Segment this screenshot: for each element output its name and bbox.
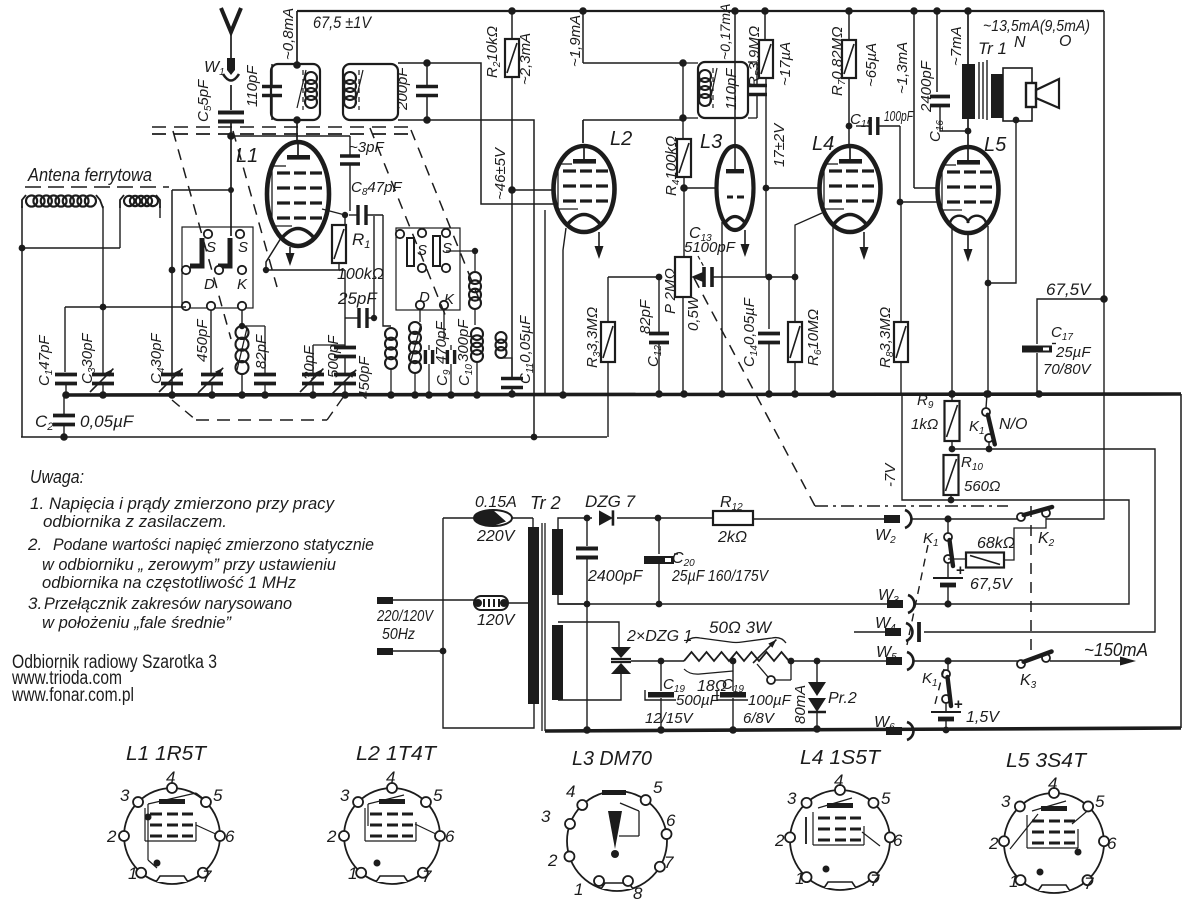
svg-text:~65µA: ~65µA <box>863 43 880 87</box>
wire L4 grid return <box>795 213 822 277</box>
svg-text:0,5W: 0,5W <box>685 294 702 331</box>
wire can1 to HT bus <box>296 11 298 65</box>
svg-text:220/120V: 220/120V <box>376 608 434 625</box>
svg-text:2: 2 <box>547 851 558 870</box>
wire dc rail lower <box>558 603 888 605</box>
wire R9 junction to W4 loop <box>924 449 1155 632</box>
svg-text:~1,3mA: ~1,3mA <box>894 42 911 94</box>
switch bars right <box>407 238 414 266</box>
wires mains input <box>393 599 474 601</box>
svg-text:2×DZG 1: 2×DZG 1 <box>626 628 692 645</box>
svg-text:82pF: 82pF <box>637 299 654 334</box>
svg-text:25µF 160/175V: 25µF 160/175V <box>671 568 769 585</box>
svg-text:1: 1 <box>795 869 804 888</box>
svg-text:L2: L2 <box>610 128 632 150</box>
svg-text:110pF: 110pF <box>244 65 261 107</box>
svg-text:7: 7 <box>664 853 674 872</box>
wire 200pF bottom riser <box>427 120 534 437</box>
svg-text:N/O: N/O <box>999 416 1027 433</box>
speaker <box>1003 68 1032 121</box>
svg-text:5: 5 <box>1095 792 1105 811</box>
svg-text:1,5V: 1,5V <box>966 709 1000 726</box>
wire coil1 right down <box>102 206 104 307</box>
switch lower contacts left <box>182 302 190 310</box>
svg-text:+: + <box>954 696 963 713</box>
L1 filament arrow <box>289 247 291 256</box>
svg-text:4: 4 <box>386 768 395 787</box>
svg-text:Podane wartości napięć zmierzo: Podane wartości napięć zmierzono statycz… <box>53 535 374 554</box>
svg-text:25pF: 25pF <box>337 289 378 308</box>
IF can 3 box <box>698 62 748 118</box>
svg-text:5: 5 <box>433 786 443 805</box>
svg-text:~17µA: ~17µA <box>777 42 794 86</box>
L2 filament lead <box>563 228 566 394</box>
dashed box bottom <box>172 400 196 420</box>
nodes can3 <box>679 59 687 67</box>
svg-text:L5 3S4T: L5 3S4T <box>1006 750 1088 772</box>
switch bars left <box>190 238 202 266</box>
svg-text:1: 1 <box>1009 872 1018 891</box>
coil osc 3 <box>471 328 483 340</box>
svg-text:3.: 3. <box>28 594 42 613</box>
L2 grid lead down <box>544 210 546 394</box>
wire to switch row <box>65 306 186 308</box>
rheostat wiper <box>753 640 776 663</box>
L5 leads <box>951 226 953 394</box>
wires right switch risers <box>419 309 421 322</box>
svg-text:Przełącznik zakresów narysowan: Przełącznik zakresów narysowano <box>44 594 292 613</box>
wire C5 junction to 3pF cap <box>231 135 350 137</box>
svg-text:120V: 120V <box>477 612 516 629</box>
L3 filament arrow <box>744 230 746 247</box>
svg-text:82pF: 82pF <box>253 334 270 369</box>
wire can2 leads <box>398 62 427 64</box>
svg-text:~46±5V: ~46±5V <box>492 146 509 200</box>
svg-text:100pF: 100pF <box>884 108 914 125</box>
svg-text:odbiornika z zasilaczem.: odbiornika z zasilaczem. <box>43 512 227 531</box>
coil osc 1 <box>385 328 397 340</box>
svg-text:7: 7 <box>1084 874 1094 893</box>
wire heater winding <box>558 622 619 647</box>
svg-text:1: 1 <box>128 864 137 883</box>
wire can1 to L1 anode <box>296 120 298 143</box>
dashed band switch linkage <box>152 126 410 128</box>
svg-text:4: 4 <box>566 782 575 801</box>
W4 contact bar <box>917 622 921 642</box>
switch block left box <box>182 227 253 308</box>
svg-text:6: 6 <box>445 827 455 846</box>
svg-text:1.: 1. <box>30 494 44 513</box>
switch S contacts left <box>204 230 212 238</box>
svg-text:w odbiorniku „ zerowym” przy u: w odbiorniku „ zerowym” przy ustawieniu <box>42 555 337 574</box>
svg-text:0,05µF: 0,05µF <box>80 412 135 431</box>
svg-text:6: 6 <box>225 827 235 846</box>
svg-text:odbiornika na częstotliwość 1: odbiornika na częstotliwość 1 MHz <box>42 573 296 592</box>
svg-text:L3 DM70: L3 DM70 <box>572 748 652 770</box>
svg-text:1kΩ: 1kΩ <box>911 416 938 433</box>
svg-text:+: + <box>956 562 965 579</box>
svg-text:Pr.2: Pr.2 <box>828 690 857 707</box>
coil in can 1 <box>305 72 317 84</box>
wire L2 top supply <box>582 11 584 63</box>
svg-text:L5: L5 <box>984 134 1007 156</box>
svg-text:2kΩ: 2kΩ <box>717 529 747 546</box>
svg-text:L1 1R5T: L1 1R5T <box>126 743 208 765</box>
svg-text:6: 6 <box>893 831 903 850</box>
svg-text:w położeniu „fale średnie”: w położeniu „fale średnie” <box>42 613 232 632</box>
L1 cathode lead <box>266 238 281 270</box>
wire top HT bus <box>297 10 1104 12</box>
ferrite coil 2 <box>120 195 124 208</box>
wire y190 link <box>172 189 231 191</box>
wire -7V branch <box>902 394 951 500</box>
wire C8 right down <box>383 215 391 326</box>
wire 200pF to L2 grid <box>427 63 559 204</box>
svg-text:5: 5 <box>213 786 223 805</box>
L3 lead down <box>721 222 723 394</box>
svg-text:3: 3 <box>787 789 797 808</box>
svg-text:5: 5 <box>653 778 663 797</box>
svg-text:4: 4 <box>834 771 843 790</box>
svg-text:0.15A: 0.15A <box>475 494 517 511</box>
svg-text:5: 5 <box>881 789 891 808</box>
svg-text:1: 1 <box>348 864 357 883</box>
wire main ground bus thick <box>63 394 1181 395</box>
svg-text:450pF: 450pF <box>194 319 211 362</box>
svg-text:~13,5mA(9,5mA): ~13,5mA(9,5mA) <box>983 18 1090 35</box>
svg-text:67,5 ±1V: 67,5 ±1V <box>313 13 372 32</box>
svg-text:S: S <box>238 239 248 256</box>
svg-text:50Ω 3W: 50Ω 3W <box>709 618 773 637</box>
svg-text:C14​0,05µF: C14​0,05µF <box>741 297 760 367</box>
svg-text:25µF: 25µF <box>1055 344 1091 361</box>
svg-text:N: N <box>1014 34 1026 51</box>
svg-text:560Ω: 560Ω <box>964 478 1000 495</box>
ferrite coil 1 <box>22 195 26 208</box>
svg-text:Antena ferrytowa: Antena ferrytowa <box>27 165 152 185</box>
wire right border vertical <box>1103 11 1105 299</box>
capacitor 200pF <box>416 85 438 89</box>
svg-text:C1​47pF: C1​47pF <box>36 335 55 386</box>
svg-text:6: 6 <box>666 811 676 830</box>
svg-text:C11​0,05µF: C11​0,05µF <box>517 315 536 384</box>
coil right of switch <box>469 272 481 284</box>
svg-text:3: 3 <box>1001 792 1011 811</box>
svg-text:2: 2 <box>106 827 117 846</box>
svg-text:110pF: 110pF <box>723 68 740 110</box>
svg-text:7: 7 <box>422 867 432 886</box>
wire R2 node to L2 grid2 <box>512 189 554 191</box>
switch block right box <box>396 228 460 310</box>
svg-text:Tr 1: Tr 1 <box>978 39 1007 58</box>
wire antenna left vertical <box>21 206 23 437</box>
svg-text:7: 7 <box>870 871 880 890</box>
svg-text:2: 2 <box>774 831 785 850</box>
svg-text:3: 3 <box>541 807 551 826</box>
wire AGC down to C14 <box>765 188 767 277</box>
svg-text:Tr 2: Tr 2 <box>530 493 561 513</box>
svg-text:S: S <box>206 239 216 256</box>
svg-text:~0,17mA: ~0,17mA <box>717 4 733 60</box>
svg-text:200pF: 200pF <box>394 67 411 111</box>
svg-text:~7mA: ~7mA <box>948 26 965 66</box>
svg-text:6/8V: 6/8V <box>743 710 776 727</box>
node can1 bottom <box>293 116 301 124</box>
dashed switch linkages <box>907 545 928 645</box>
svg-text:www.fonar.com.pl: www.fonar.com.pl <box>11 685 134 706</box>
svg-text:2: 2 <box>988 834 999 853</box>
svg-text:~1,9mA: ~1,9mA <box>567 15 584 67</box>
svg-text:Uwaga:: Uwaga: <box>30 467 84 487</box>
svg-text:50Hz: 50Hz <box>382 626 415 643</box>
wire filament feed <box>791 660 886 662</box>
svg-text:~3pF: ~3pF <box>349 139 384 156</box>
svg-text:R2​10kΩ: R2​10kΩ <box>484 26 503 78</box>
svg-text:12/15V: 12/15V <box>645 710 695 727</box>
svg-text:~150mA: ~150mA <box>1084 640 1148 660</box>
svg-text:R6​10MΩ: R6​10MΩ <box>805 309 824 366</box>
svg-text:5100pF: 5100pF <box>684 239 736 256</box>
wire L3 grid <box>684 187 717 189</box>
wire C5 to band switch <box>230 136 232 236</box>
svg-text:67,5V: 67,5V <box>970 576 1013 593</box>
wire bottom thick bus <box>545 728 1181 731</box>
svg-text:7: 7 <box>202 867 212 886</box>
svg-text:220V: 220V <box>476 528 516 545</box>
node can1 top <box>293 61 301 69</box>
coil osc 4 <box>496 332 507 343</box>
svg-text:2: 2 <box>326 827 337 846</box>
mains terminals <box>377 597 393 604</box>
svg-text:100kΩ: 100kΩ <box>337 266 384 283</box>
svg-text:6: 6 <box>1107 834 1117 853</box>
svg-text:D: D <box>204 276 215 293</box>
svg-text:L4 1S5T: L4 1S5T <box>800 747 882 769</box>
svg-text:~0,8mA: ~0,8mA <box>280 8 297 60</box>
wire far right vertical <box>1180 394 1182 728</box>
capacitor can3 <box>747 84 767 88</box>
svg-text:L4: L4 <box>812 133 834 155</box>
L2 filament arrow <box>598 232 600 249</box>
svg-text:450pF: 450pF <box>356 356 373 399</box>
svg-text:2400pF: 2400pF <box>587 568 643 585</box>
wire speaker return <box>1013 117 1020 124</box>
svg-text:80mA: 80mA <box>792 685 809 724</box>
svg-text:Napięcia i prądy zmierzono prz: Napięcia i prądy zmierzono przy pracy <box>49 494 335 513</box>
L4 leads <box>832 227 834 394</box>
wire lower thin bus <box>21 436 607 438</box>
wire coil2 right stub <box>159 206 161 218</box>
wire coil link <box>22 247 120 249</box>
svg-text:C5​5pF: C5​5pF <box>195 79 214 122</box>
svg-text:17±2V: 17±2V <box>771 122 788 167</box>
dashed linkage to volume pot <box>694 278 815 506</box>
wire L2 anode to can3 <box>583 119 683 121</box>
svg-text:3: 3 <box>120 786 130 805</box>
antenna V <box>221 8 241 32</box>
coil osc 2 adjustable <box>409 322 421 334</box>
wire K2 to 67,5V node <box>1046 299 1104 519</box>
wire C15 to L5 grid <box>899 126 901 202</box>
switch mid contacts left <box>182 266 190 274</box>
svg-text:DZG 7: DZG 7 <box>585 492 636 511</box>
svg-text:1: 1 <box>574 880 583 899</box>
wires switch risers <box>210 310 212 368</box>
svg-text:L3: L3 <box>700 131 722 153</box>
wire R10 to W3 loop <box>916 500 1129 604</box>
svg-text:100µF: 100µF <box>748 692 792 709</box>
svg-text:300pF: 300pF <box>455 319 472 362</box>
wire rectified filament rail <box>631 660 684 662</box>
IF can 1 box <box>271 64 320 120</box>
svg-text:67,5V: 67,5V <box>1046 280 1092 299</box>
oscillator coil left <box>236 326 249 339</box>
wires osc net <box>428 364 430 394</box>
svg-text:4: 4 <box>1048 774 1057 793</box>
coil in can 2 <box>344 72 356 84</box>
wire R5 to L4 grid <box>766 187 820 189</box>
wires Tr2 secondary top <box>558 518 592 529</box>
svg-text:O: O <box>1059 33 1071 50</box>
wire L1 grid to R1 C8 node <box>322 209 345 215</box>
svg-text:68kΩ: 68kΩ <box>977 535 1015 552</box>
svg-text:K: K <box>237 276 248 293</box>
svg-text:L2 1T4T: L2 1T4T <box>356 743 438 765</box>
svg-text:4: 4 <box>166 768 175 787</box>
IF can 2 box <box>343 64 398 120</box>
svg-text:S: S <box>442 240 452 257</box>
svg-text:8: 8 <box>633 884 643 903</box>
svg-text:2.: 2. <box>27 535 42 554</box>
wire 25pF up <box>373 216 375 318</box>
svg-text:70/80V: 70/80V <box>1043 361 1093 378</box>
svg-text:-7V: -7V <box>882 462 899 487</box>
svg-text:3: 3 <box>340 786 350 805</box>
